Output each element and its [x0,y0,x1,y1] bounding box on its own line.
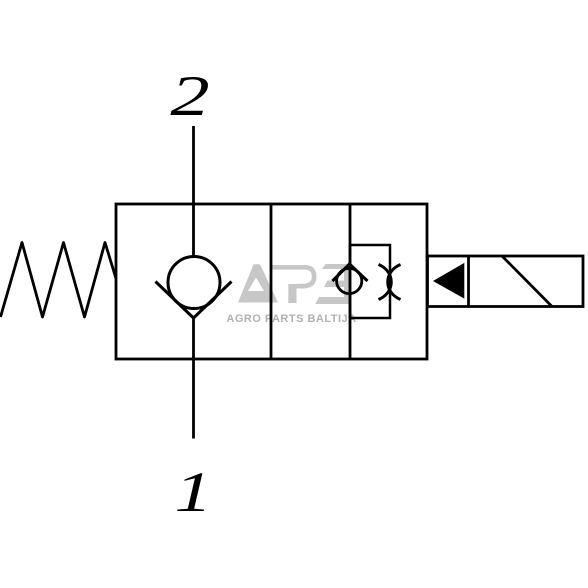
section divider 1 [270,204,273,359]
arrow triangle [433,263,464,299]
svg-text:1: 1 [174,461,212,523]
spring [1,243,117,318]
pilot check valve ball [337,268,362,293]
port 2 line [192,126,195,258]
check valve CV1 ball [168,257,220,309]
solenoid diagonal [503,257,552,307]
valve body [116,204,427,359]
watermark logo AP3 [238,264,349,304]
pilot box [350,245,390,318]
solenoid box [428,256,584,307]
svg-text:AGRO PARTS BALTIJA: AGRO PARTS BALTIJA [226,313,356,325]
port 1 line [192,316,195,439]
orifice restrictor [379,265,392,300]
svg-text:2: 2 [170,64,209,127]
pilot check valve seat [332,264,367,281]
section divider 2 [349,204,352,359]
solenoid divider [467,256,470,307]
check valve CV1 seat [156,282,232,319]
